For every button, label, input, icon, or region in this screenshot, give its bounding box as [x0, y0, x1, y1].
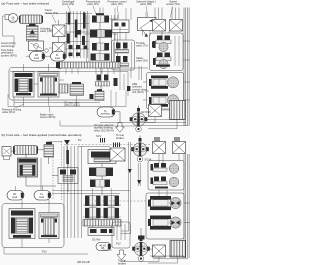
svg-text:valve (PV): valve (PV): [87, 2, 99, 6]
housing b-left: [2, 204, 64, 248]
wires left b: [11, 150, 16, 152]
center control box b: [88, 150, 116, 164]
brake chamber valve V1: [53, 25, 66, 37]
brake chamber valve Xb3: [153, 245, 166, 257]
svg-text:3/2 WV: 3/2 WV: [92, 237, 101, 241]
solenoid modulator S4: [151, 177, 179, 187]
pressure control valve PCV-a: [130, 106, 148, 132]
pump motor M2: [2, 147, 11, 157]
dark chamber unit b1: [148, 196, 181, 210]
brake valve block BV2: [38, 72, 59, 98]
wire pump-accu: [18, 18, 20, 20]
riser wires X1 X2: [154, 8, 156, 20]
svg-text:PLV: PLV: [42, 250, 47, 254]
diaphragm box wires: [142, 31, 144, 36]
top link a: [46, 13, 92, 15]
axle housing a: [147, 73, 184, 110]
bellows wires b: [15, 186, 17, 191]
brake chamber valve X2: [170, 20, 183, 32]
solenoid modulator S1: [153, 36, 171, 52]
chamber wires b: [184, 202, 190, 204]
bottom piping a: [14, 102, 100, 104]
needle valve housing: [112, 40, 135, 70]
svg-text:load: load: [34, 56, 39, 60]
svg-text:brakes: brakes: [116, 136, 124, 140]
PC axis wires: [99, 23, 101, 30]
center axis wires b: [101, 164, 103, 168]
solenoid pins: [113, 143, 115, 148]
brake valve block b1 dark: [9, 209, 35, 239]
svg-text:valve (PD): valve (PD): [140, 2, 152, 6]
feed valve b: [44, 145, 54, 158]
lower valve b: [88, 228, 114, 236]
pipe to rear arrow a: [115, 112, 120, 123]
side block a: [59, 84, 68, 93]
svg-text:valve (PLV): valve (PLV): [2, 110, 15, 114]
modulator base bar b: [155, 187, 168, 189]
outline arrow down: [117, 250, 126, 260]
subsystem housing a: [9, 68, 101, 101]
svg-text:system (KPS): system (KPS): [1, 53, 17, 57]
PC main piston: [90, 30, 97, 38]
block wires b: [21, 200, 23, 209]
center piston b: [89, 168, 96, 177]
PC train top wire: [99, 8, 101, 16]
unloader valve UV: [27, 26, 39, 42]
svg-text:PLV: PLV: [116, 242, 121, 246]
wheel brake chamber FR-a: [149, 94, 179, 107]
load bellows a-FR: [30, 52, 46, 62]
axle housing b: [146, 193, 184, 239]
right bundle b: [183, 154, 185, 258]
brake valve block BV1: [13, 72, 34, 98]
mid valve blocks a: [96, 74, 125, 90]
svg-text:SCV: SCV: [96, 134, 102, 138]
svg-text:valve (TV): valve (TV): [136, 44, 148, 48]
diaphragm box: [138, 18, 157, 31]
svg-text:control line: control line: [1, 44, 14, 48]
horizontal links b: [52, 190, 130, 192]
vertical feeders b: [63, 146, 65, 238]
small gauge a: [57, 64, 62, 69]
left pipe pair 1 b: [128, 142, 130, 228]
load bellows aux-a: [97, 107, 115, 117]
svg-text:(a) Front axle – foot brake re: (a) Front axle – foot brake released: [2, 1, 50, 5]
brake chamber valve X1: [153, 20, 166, 32]
valve element b-t2: [104, 196, 120, 207]
brake valve block BVb2: [39, 213, 59, 239]
compressor C: [29, 41, 44, 51]
valve element PC-mid: [92, 43, 109, 51]
svg-text:brakes: brakes: [118, 261, 126, 265]
svg-text:unit (SCV): unit (SCV): [132, 90, 144, 94]
svg-text:(b) Front axle – foot brake ap: (b) Front axle – foot brake applied (nor…: [2, 133, 82, 137]
load bellows ref: [96, 243, 111, 251]
wire unloader-compressor: [31, 40, 33, 43]
abs wires a: [127, 72, 129, 97]
svg-text:SCVA: SCVA: [145, 158, 152, 162]
block wires a: [23, 64, 25, 72]
leader lines a: [68, 6, 71, 13]
dashed boundary b: [61, 141, 63, 200]
solenoid modulator S3: [151, 163, 179, 173]
wire left riser: [3, 16, 15, 47]
pipes from PC box: [114, 33, 116, 41]
bellows wires a: [36, 49, 38, 52]
curvy feed pipe a: [141, 28, 146, 36]
wires V1 V2: [58, 20, 60, 25]
relay valve a: [70, 84, 84, 96]
reservoir R-b: [170, 241, 186, 258]
supply tank b: [18, 158, 38, 177]
manifold pipes mid a: [101, 67, 148, 69]
load bellows b-FL: [34, 191, 51, 201]
left pipe pair 2 b: [137, 163, 139, 186]
proportional valve pipe columns: [66, 11, 68, 58]
svg-text:load: load: [55, 56, 60, 60]
chamber wires a: [184, 81, 191, 83]
top cap bar: [96, 13, 104, 15]
svg-text:effect (3/2 WV-R): effect (3/2 WV-R): [94, 128, 114, 132]
brake chamber valve Db: [110, 148, 125, 161]
svg-text:AB: AB: [101, 246, 105, 250]
pressure control valve PCV-b1: [131, 136, 149, 162]
svg-text:3/2 WVA: 3/2 WVA: [141, 110, 151, 114]
small valve right a: [95, 91, 104, 101]
junction icon b: [64, 140, 70, 145]
pump motor M1: [5, 15, 9, 20]
brake chamber valve V2: [53, 43, 66, 55]
modulator base bars: [152, 42, 155, 48]
solenoid pins: [174, 137, 176, 142]
feeder dark bar b: [66, 150, 69, 164]
svg-text:load: load: [39, 195, 44, 199]
cross links PV: [65, 23, 89, 25]
PC valve box: [112, 20, 129, 33]
modulator housing b: [148, 161, 184, 191]
right cable bundle a: [183, 8, 185, 127]
PC side wires: [85, 33, 90, 35]
valve element b-t1: [85, 196, 101, 207]
svg-text:valve (SV): valve (SV): [136, 59, 148, 63]
wheel brake chamber FL-a: [149, 76, 179, 89]
stack side pipes: [86, 15, 88, 62]
solenoid modulator S2: [153, 53, 171, 69]
valve element b-t3: [85, 208, 101, 219]
brake chamber valve Xb1: [153, 142, 166, 154]
cross relay valve b: [52, 158, 78, 192]
small row squares a: [69, 45, 73, 49]
wire accu-unloader: [31, 23, 33, 25]
svg-text:sensor (TS): sensor (TS): [45, 11, 59, 15]
bottom piping b: [4, 248, 88, 255]
solenoid pins: [154, 137, 156, 142]
wire compressor-down: [35, 51, 37, 52]
svg-text:auxiliary: auxiliary: [100, 112, 110, 116]
svg-text:sensor (VS): sensor (VS): [166, 2, 180, 6]
valve element PC-low: [91, 54, 110, 61]
svg-text:load: load: [12, 195, 17, 199]
valve element b-mid: [90, 180, 110, 188]
solenoid pins: [100, 138, 102, 143]
modulator wires b: [158, 154, 160, 164]
riser pipes right of housing: [110, 90, 112, 107]
bottom sub box b: [112, 222, 130, 248]
valve bits above pcv b2: [138, 236, 145, 240]
brake chamber valve Xb2: [173, 142, 186, 154]
load bellows a-FL: [51, 52, 67, 62]
body bar a: [58, 62, 120, 68]
modulator housing a: [150, 33, 184, 71]
modulator wires a: [161, 31, 163, 36]
svg-text:sensor (BVS): sensor (BVS): [40, 115, 56, 119]
air accumulator AC2: [13, 146, 38, 155]
svg-text:PV: PV: [78, 138, 82, 142]
air accumulator AC1: [19, 15, 43, 24]
dark chamber unit b2: [148, 216, 181, 230]
load bellows b-FR: [7, 191, 24, 201]
reservoir R-a: [170, 101, 186, 120]
pressure control valve PCV-b2: [132, 235, 150, 261]
svg-text:valve (PC): valve (PC): [111, 2, 123, 6]
outline arrow a: [116, 123, 125, 133]
solenoid bars PV: [68, 13, 71, 25]
svg-text:pump (P2): pump (P2): [62, 2, 74, 6]
valve element b-t4: [104, 208, 120, 219]
lower body bar b: [83, 220, 121, 227]
brake chamber valve X3: [149, 105, 162, 117]
link pipe b: [78, 146, 110, 148]
stack axis lines b: [92, 188, 94, 227]
svg-text:(4B 45) AB: (4B 45) AB: [77, 260, 90, 264]
valve element PC-top: [92, 16, 109, 23]
